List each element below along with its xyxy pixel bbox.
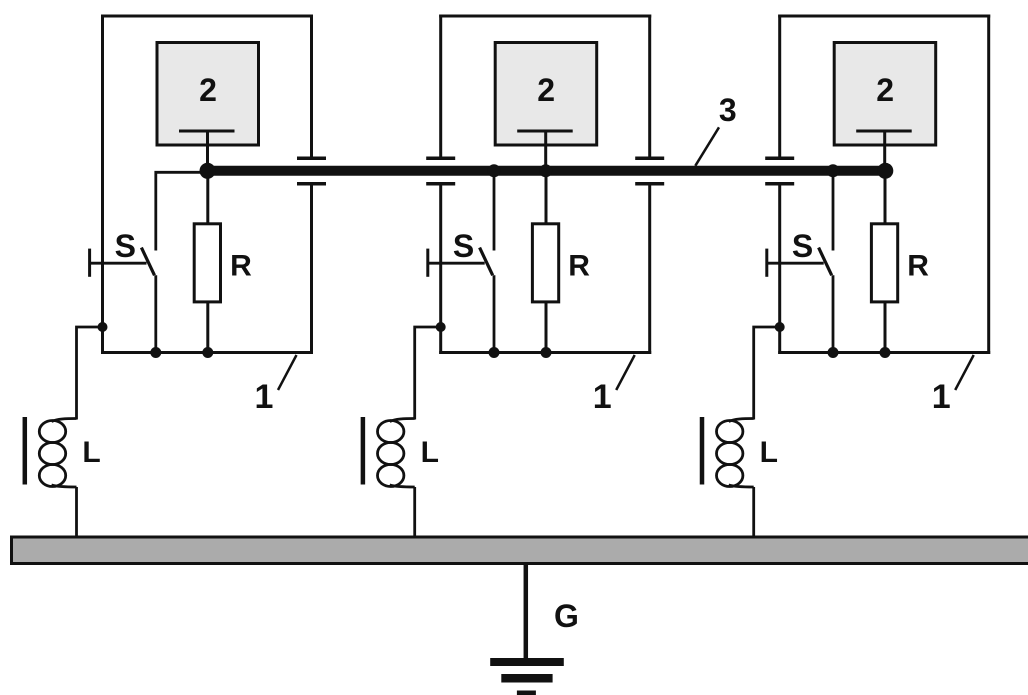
wire from bus down to switch upper contact (unit 3) <box>832 171 835 251</box>
inductor L coil entry curve (unit 1) <box>52 419 77 422</box>
inductor L coil exit curve (unit 3) <box>729 485 754 487</box>
svg-text:S: S <box>792 228 813 264</box>
inductor L coil loop 1 (unit 2) <box>378 421 404 443</box>
inductor core bar (unit 2) <box>361 417 366 485</box>
enclosure box 1 (unit 3) right wall <box>987 15 990 355</box>
earth bus bar (grey) <box>12 537 1028 564</box>
wire from left wall junction to inductor (unit 1) <box>77 327 103 420</box>
svg-text:L: L <box>82 436 100 469</box>
svg-text:2: 2 <box>199 72 217 108</box>
wire from bus node left along bus level to switch branch (unit 1) <box>156 172 208 250</box>
ground symbol top bar <box>490 658 564 666</box>
inductor L coil loop 3 (unit 2) <box>378 465 404 487</box>
inductor L coil exit curve (unit 2) <box>390 485 415 487</box>
feed-through bushing capacitor, unit 2 right wall, lower plate <box>635 182 664 186</box>
svg-text:3: 3 <box>719 92 737 128</box>
inductor L coil entry curve (unit 3) <box>729 419 754 422</box>
electrode plate inside box 2 (unit 3) <box>856 130 912 133</box>
svg-text:S: S <box>115 228 136 264</box>
junction dot, bus left end at unit 1 node <box>200 163 216 179</box>
wire from left wall junction to inductor (unit 2) <box>415 327 441 420</box>
enclosure box 1 (unit 1) right wall lower segment <box>310 184 313 354</box>
feed-through bushing capacitor, unit 1 right wall, upper plate <box>297 156 326 160</box>
inductor L coil loop 1 (unit 3) <box>717 421 743 443</box>
inductor L coil loop 2 (unit 3) <box>717 443 743 465</box>
svg-text:R: R <box>568 250 590 283</box>
inductor L coil entry curve (unit 2) <box>390 419 415 422</box>
wire from bus down to switch upper contact (unit 2) <box>493 171 496 251</box>
label 1 leader line (unit 3) <box>955 355 974 390</box>
svg-text:2: 2 <box>876 72 894 108</box>
enclosure box 1 (unit 3) left wall lower segment <box>778 184 781 354</box>
enclosure box 1 (unit 1) top wall <box>101 15 313 18</box>
wire from switch lower contact to box bottom (unit 2) <box>493 275 496 352</box>
wire from resistor down to box bottom (unit 2) <box>545 302 548 353</box>
junction dot, unit 2 switch branch on bus <box>488 164 501 177</box>
junction dot, resistor branch at box bottom (unit 1) <box>202 347 213 358</box>
ground symbol bottom bar <box>517 691 536 695</box>
enclosure box 1 (unit 2) right wall lower segment <box>648 184 651 354</box>
svg-text:1: 1 <box>932 378 951 416</box>
wire from box 2 electrode down to bus node (unit 1) <box>206 131 209 171</box>
switch S blade (unit 1) <box>141 248 154 276</box>
switch S actuator end tick (unit 2) <box>426 249 429 277</box>
svg-text:L: L <box>760 436 778 469</box>
junction dot, switch branch at box bottom (unit 2) <box>489 347 500 358</box>
enclosure box 1 (unit 2) left wall lower segment <box>439 184 442 354</box>
label 1 leader line (unit 1) <box>278 355 297 390</box>
svg-text:1: 1 <box>593 378 612 416</box>
junction dot, switch branch at box bottom (unit 3) <box>828 347 839 358</box>
feed-through bushing capacitor, unit 1 right wall, lower plate <box>297 182 326 186</box>
junction dot on left wall, inductor tap (unit 2) <box>436 322 446 332</box>
inductor core bar (unit 1) <box>23 417 28 485</box>
wire from inductor down to earth bar (unit 3) <box>752 487 755 537</box>
feed-through bushing capacitor, unit 2 left wall, lower plate <box>426 182 455 186</box>
junction dot, resistor branch at box bottom (unit 2) <box>541 347 552 358</box>
junction dot on left wall, inductor tap (unit 1) <box>98 322 108 332</box>
electrode plate inside box 2 (unit 1) <box>179 130 235 133</box>
enclosure box 1 (unit 1) bottom wall <box>101 351 313 354</box>
enclosure box 1 (unit 3) top wall <box>778 15 990 18</box>
wire from switch lower contact to box bottom (unit 3) <box>832 275 835 352</box>
junction dot, switch branch at box bottom (unit 1) <box>150 347 161 358</box>
svg-text:L: L <box>421 436 439 469</box>
label 3 leader line <box>695 127 719 166</box>
resistor R (unit 1) <box>194 224 220 302</box>
wire from box 2 electrode down to bus node (unit 3) <box>883 131 886 171</box>
wire from bus node down to resistor (unit 3) <box>884 171 887 224</box>
switch S blade (unit 3) <box>819 248 832 276</box>
switch S blade (unit 2) <box>480 248 493 276</box>
inductor L coil exit curve (unit 1) <box>52 485 77 487</box>
enclosure box 1 (unit 3) bottom wall <box>778 351 990 354</box>
svg-text:R: R <box>907 250 929 283</box>
feed-through bushing capacitor, unit 3 left wall, lower plate <box>765 182 794 186</box>
inductor L coil loop 3 (unit 3) <box>717 465 743 487</box>
junction dot, unit 2 electrode wire on bus <box>539 164 552 177</box>
wire from inductor down to earth bar (unit 2) <box>413 487 416 537</box>
inductor L coil loop 2 (unit 2) <box>378 443 404 465</box>
resistor R (unit 2) <box>532 224 558 302</box>
svg-text:S: S <box>453 228 474 264</box>
junction dot, resistor branch at box bottom (unit 3) <box>880 347 891 358</box>
bus bar 3 (thick measuring bus) <box>208 166 886 176</box>
wire from box 2 electrode down to bus node (unit 2) <box>544 131 547 171</box>
wire from inductor down to earth bar (unit 1) <box>75 487 78 537</box>
junction dot on left wall, inductor tap (unit 3) <box>775 322 785 332</box>
junction dot, unit 3 switch branch on bus <box>827 164 840 177</box>
resistor R (unit 3) <box>871 224 897 302</box>
inductor core bar (unit 3) <box>700 417 705 485</box>
enclosure box 1 (unit 2) top wall <box>439 15 651 18</box>
shielded box 2 (unit 1) <box>157 43 259 146</box>
wire from resistor down to box bottom (unit 1) <box>206 302 209 353</box>
wire from bus node down to resistor (unit 1) <box>206 171 209 224</box>
wire from resistor down to box bottom (unit 3) <box>884 302 887 353</box>
enclosure box 1 (unit 2) bottom wall <box>439 351 651 354</box>
enclosure box 1 (unit 1) right wall upper segment <box>310 15 313 159</box>
label 1 leader line (unit 2) <box>616 355 635 390</box>
feed-through bushing capacitor, unit 3 left wall, upper plate <box>765 156 794 160</box>
feed-through bushing capacitor, unit 2 left wall, upper plate <box>426 156 455 160</box>
switch S actuator end tick (unit 1) <box>88 249 91 277</box>
svg-text:2: 2 <box>537 72 555 108</box>
inductor L coil loop 2 (unit 1) <box>39 443 65 465</box>
enclosure box 1 (unit 2) left wall upper segment <box>439 15 442 159</box>
svg-text:R: R <box>230 250 252 283</box>
svg-text:1: 1 <box>255 378 274 416</box>
shielded box 2 (unit 3) <box>834 43 936 146</box>
switch S actuator link line (unit 1) <box>90 262 147 265</box>
junction dot, bus right end at unit 3 node <box>877 163 893 179</box>
shielded box 2 (unit 2) <box>495 43 597 146</box>
enclosure box 1 (unit 3) left wall upper segment <box>778 15 781 159</box>
wire from left wall junction to inductor (unit 3) <box>754 327 780 420</box>
inductor L coil loop 1 (unit 1) <box>39 421 65 443</box>
wire from bus node down to resistor (unit 2) <box>545 171 548 224</box>
enclosure box 1 (unit 2) right wall upper segment <box>648 15 651 159</box>
switch S actuator link line (unit 3) <box>767 262 824 265</box>
svg-text:G: G <box>554 598 579 634</box>
switch S actuator end tick (unit 3) <box>765 249 768 277</box>
feed-through bushing capacitor, unit 2 right wall, upper plate <box>635 156 664 160</box>
ground wire G <box>524 564 529 662</box>
wire from switch lower contact to box bottom (unit 1) <box>154 275 157 352</box>
enclosure box 1 (unit 1) left wall <box>101 15 104 355</box>
ground symbol middle bar <box>501 674 552 683</box>
switch S actuator link line (unit 2) <box>428 262 485 265</box>
inductor L coil loop 3 (unit 1) <box>39 465 65 487</box>
electrode plate inside box 2 (unit 2) <box>517 130 573 133</box>
